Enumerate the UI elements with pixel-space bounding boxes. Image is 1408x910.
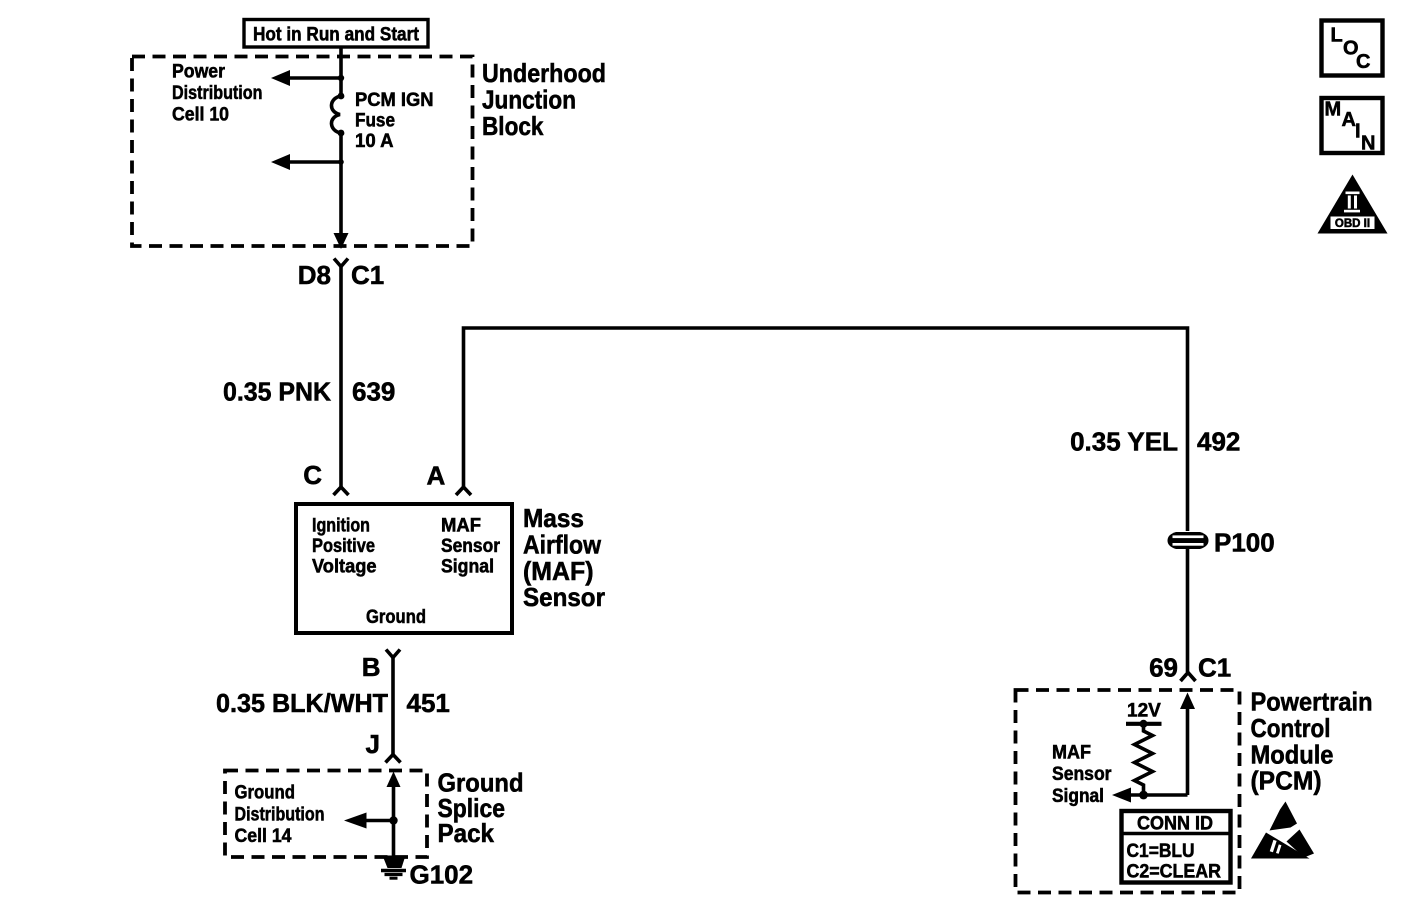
svg-text:Power: Power bbox=[172, 62, 226, 83]
svg-text:Sensor: Sensor bbox=[1052, 764, 1112, 785]
resistor (PCM pull-up) bbox=[1135, 724, 1153, 795]
junction: resistor to signal line bbox=[1139, 791, 1148, 800]
Powertrain Control Module dashed box bbox=[1016, 690, 1240, 893]
label: 451 bbox=[407, 688, 450, 718]
label: B bbox=[362, 652, 381, 682]
svg-text:G102: G102 bbox=[410, 860, 474, 890]
terminal C of MAF sensor (inverted Y) bbox=[334, 487, 349, 495]
label: 0.35 YEL bbox=[1070, 427, 1178, 457]
label: A bbox=[427, 461, 446, 491]
arrow: splice to Ground Distribution (left arrowhead) bbox=[344, 813, 394, 829]
svg-text:Block: Block bbox=[482, 111, 544, 141]
ground G102 symbol bbox=[381, 856, 406, 879]
svg-text:639: 639 bbox=[352, 377, 395, 407]
inline connector P100 bbox=[1168, 532, 1209, 549]
svg-text:Sensor: Sensor bbox=[523, 582, 605, 612]
svg-text:D8: D8 bbox=[298, 260, 331, 290]
svg-text:Cell 14: Cell 14 bbox=[235, 826, 292, 847]
wire 492: MAF pin A up, across, down to P100 bbox=[464, 328, 1188, 531]
svg-text:Signal: Signal bbox=[441, 557, 494, 578]
label: D8 bbox=[298, 260, 331, 290]
wire: P100 down to PCM connector bbox=[1186, 549, 1190, 672]
svg-text:Distribution: Distribution bbox=[172, 83, 263, 104]
wire: lower feed to Power Distribution with arrow bbox=[271, 154, 344, 170]
label: 639 bbox=[352, 377, 395, 407]
svg-text:Pack: Pack bbox=[438, 818, 495, 848]
svg-text:C1: C1 bbox=[351, 260, 384, 290]
arrow: wire entering splice pack (up arrowhead) + wire down to ground bbox=[387, 772, 401, 858]
svg-text:Sensor: Sensor bbox=[441, 536, 501, 557]
svg-text:0.35 BLK/WHT: 0.35 BLK/WHT bbox=[216, 688, 388, 718]
svg-text:69: 69 bbox=[1149, 653, 1178, 683]
terminal J (inverted Y) bbox=[386, 755, 401, 763]
svg-text:Ignition: Ignition bbox=[312, 516, 370, 537]
arrow: wire entering PCM (up arrowhead) and internal line bbox=[1129, 693, 1195, 796]
label: Ground (inside MAF box) bbox=[366, 607, 426, 628]
svg-text:12V: 12V bbox=[1127, 701, 1161, 722]
svg-text:(PCM): (PCM) bbox=[1251, 766, 1322, 796]
Ground Splice Pack dashed box bbox=[225, 771, 427, 858]
svg-text:451: 451 bbox=[407, 688, 450, 718]
label: 0.35 PNK bbox=[223, 377, 331, 407]
svg-text:MAF: MAF bbox=[1052, 743, 1091, 764]
terminal 69 of PCM connector C1 (inverted Y) bbox=[1181, 673, 1196, 682]
internal 12V supply bar bbox=[1126, 720, 1162, 728]
svg-text:C1=BLU: C1=BLU bbox=[1127, 841, 1195, 862]
label: C1 bbox=[351, 260, 384, 290]
label: P100 bbox=[1214, 528, 1275, 558]
svg-text:OBD II: OBD II bbox=[1335, 218, 1370, 230]
svg-text:C: C bbox=[1356, 51, 1370, 73]
MAF sensor box bbox=[296, 504, 512, 633]
svg-text:10 A: 10 A bbox=[355, 131, 394, 152]
svg-text:A: A bbox=[427, 461, 446, 491]
label: Power Distribution Cell 10 bbox=[172, 62, 263, 126]
svg-text:M: M bbox=[1325, 99, 1342, 121]
label box: Hot in Run and Start bbox=[244, 20, 428, 48]
label: 492 bbox=[1197, 427, 1240, 457]
svg-text:P100: P100 bbox=[1214, 528, 1275, 558]
svg-text:Signal: Signal bbox=[1052, 786, 1104, 807]
svg-text:C1: C1 bbox=[1198, 653, 1231, 683]
svg-text:0.35 PNK: 0.35 PNK bbox=[223, 377, 331, 407]
svg-text:0.35 YEL: 0.35 YEL bbox=[1070, 427, 1178, 457]
svg-text:L: L bbox=[1331, 25, 1343, 47]
wire: upper feed to Power Distribution with arrow bbox=[271, 70, 344, 86]
svg-text:Fuse: Fuse bbox=[355, 111, 395, 132]
label: Ground Distribution Cell 14 bbox=[235, 783, 325, 848]
wire: from Hot in Run and Start down to fuse bbox=[339, 47, 343, 96]
arrow to MAF Sensor Signal label (left arrowhead) bbox=[1112, 788, 1131, 803]
svg-text:PCM IGN: PCM IGN bbox=[355, 90, 434, 111]
label: G102 bbox=[410, 860, 474, 890]
label: Ground Splice Pack bbox=[438, 768, 524, 849]
ESD sensitivity symbol bbox=[1251, 802, 1314, 859]
label: PCM IGN Fuse 10 A bbox=[355, 90, 434, 152]
svg-text:N: N bbox=[1361, 133, 1375, 155]
Underhood Junction Block dashed box bbox=[132, 57, 473, 247]
svg-text:MAF: MAF bbox=[441, 516, 481, 537]
fuse F: PCM IGN Fuse 10 A bbox=[331, 93, 344, 137]
label: MAF Sensor Signal (inside PCM) bbox=[1052, 743, 1112, 807]
LOC reference box bbox=[1322, 21, 1383, 76]
label: Powertrain Control Module (PCM) bbox=[1251, 687, 1373, 796]
wire: below fuse down to UJB border bbox=[339, 133, 343, 236]
svg-text:Positive: Positive bbox=[312, 536, 375, 557]
svg-text:Cell 10: Cell 10 bbox=[172, 105, 229, 126]
svg-text:492: 492 bbox=[1197, 427, 1240, 457]
label: C bbox=[303, 460, 322, 490]
svg-text:I: I bbox=[1355, 121, 1361, 143]
label: 12V bbox=[1127, 701, 1161, 722]
terminal B of MAF sensor (Y symbol) bbox=[386, 650, 400, 755]
label: 69 bbox=[1149, 653, 1178, 683]
label: C1 (PCM) bbox=[1198, 653, 1231, 683]
CONN ID table bbox=[1122, 811, 1231, 883]
splice junction dot bbox=[389, 816, 397, 824]
svg-text:C: C bbox=[303, 460, 322, 490]
label: Ignition Positive Voltage bbox=[312, 516, 377, 578]
terminal A of MAF sensor (inverted Y) bbox=[456, 487, 471, 495]
svg-text:Hot in Run and Start: Hot in Run and Start bbox=[253, 25, 420, 46]
svg-text:A: A bbox=[1342, 109, 1356, 131]
svg-text:J: J bbox=[366, 729, 380, 759]
label: Mass Airflow (MAF) Sensor bbox=[523, 503, 605, 612]
label: J bbox=[366, 729, 380, 759]
label: 0.35 BLK/WHT bbox=[216, 688, 388, 718]
svg-text:CONN ID: CONN ID bbox=[1137, 814, 1213, 835]
label: MAF Sensor Signal (inside MAF box) bbox=[441, 516, 501, 578]
svg-text:Distribution: Distribution bbox=[235, 805, 325, 826]
MAIN reference box bbox=[1322, 98, 1383, 155]
arrow: wire exits UJB into connector C1 bbox=[334, 233, 349, 249]
svg-text:Ground: Ground bbox=[235, 783, 296, 804]
svg-text:Ground: Ground bbox=[366, 607, 426, 628]
svg-text:C2=CLEAR: C2=CLEAR bbox=[1127, 862, 1222, 883]
svg-text:Voltage: Voltage bbox=[312, 557, 377, 578]
svg-text:B: B bbox=[362, 652, 381, 682]
OBD II symbol bbox=[1318, 175, 1388, 234]
connector C1 terminal D8 (Y symbol) bbox=[334, 259, 348, 488]
label: Underhood Junction Block bbox=[482, 58, 606, 141]
